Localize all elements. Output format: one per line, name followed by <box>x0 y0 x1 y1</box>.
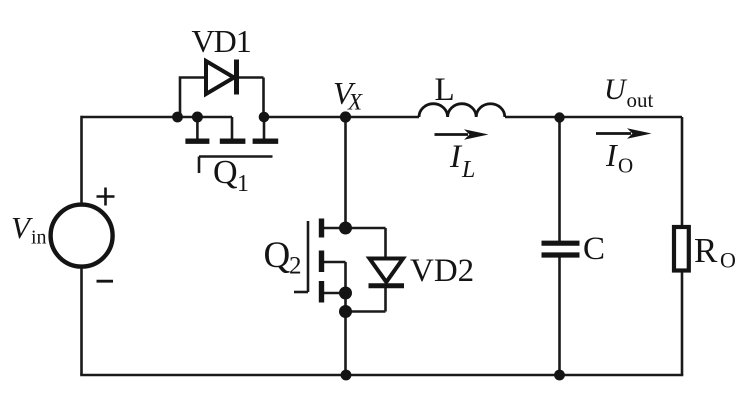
svg-text:out: out <box>627 88 654 112</box>
svg-text:VD1: VD1 <box>192 23 251 59</box>
svg-text:V: V <box>11 210 33 245</box>
svg-text:VD2: VD2 <box>410 253 474 289</box>
svg-text:L: L <box>435 72 455 108</box>
svg-text:I: I <box>449 139 463 175</box>
svg-text:O: O <box>618 154 633 178</box>
svg-text:Q: Q <box>213 154 238 191</box>
svg-text:U: U <box>604 73 628 106</box>
svg-text:C: C <box>583 231 605 267</box>
svg-text:I: I <box>605 137 618 173</box>
svg-text:in: in <box>31 227 47 249</box>
svg-text:O: O <box>720 248 736 273</box>
svg-text:2: 2 <box>289 253 302 280</box>
svg-text:R: R <box>694 231 718 270</box>
svg-text:L: L <box>461 157 475 183</box>
svg-text:X: X <box>347 90 363 115</box>
svg-text:1: 1 <box>237 171 249 197</box>
svg-text:Q: Q <box>264 235 291 276</box>
